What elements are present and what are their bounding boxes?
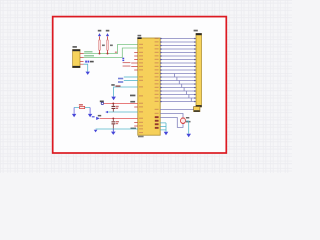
net label (green) pin2 [84, 55, 94, 56]
ground flag left of row 129 [94, 130, 98, 133]
net flag pin3 [85, 61, 94, 63]
teal wire row 129 [96, 128, 138, 130]
U1 left pin stubs [134, 53, 138, 127]
teal wire AREF to ground [114, 87, 138, 97]
push button SW1 [74, 104, 90, 109]
connector J2 [194, 30, 202, 107]
resistor R2 [107, 40, 113, 54]
bus end dots [160, 38, 195, 103]
U1 GND pin name blocks [155, 116, 159, 129]
pin label speck [130, 95, 135, 97]
ground flag Y1 [186, 134, 191, 137]
wire RESET (red) [104, 102, 138, 104]
junction RESET [112, 102, 114, 104]
power flag VCC2 [106, 30, 110, 40]
net flag near W2 [122, 58, 124, 61]
arrow flag row B [92, 115, 101, 120]
crystal Y1 [180, 117, 190, 124]
power flag VCC1 [98, 30, 102, 40]
connector J1 [72, 46, 83, 68]
net label row1 [118, 78, 123, 80]
wire J1 pin4 to ground [84, 64, 88, 71]
arrow flag left of row 112 [105, 111, 108, 113]
component X1 (yellow) [194, 107, 200, 112]
pin label XTAL (black) [130, 101, 135, 103]
ground flag below J1 [86, 72, 90, 75]
U1 bottom label [138, 136, 144, 138]
ground flag SW1 left [72, 114, 76, 117]
junction W1 tick [115, 52, 117, 53]
ground flag bracket [164, 132, 169, 135]
wire U1 XTAL1 to Y1 [160, 114, 183, 118]
teal wire PC row1 [124, 76, 138, 78]
teal wire PC row2 [124, 80, 138, 82]
net label (green) pin1 [84, 51, 92, 52]
U1 left pin stubs with red net labels [123, 62, 138, 67]
wire W1 (green) [84, 45, 138, 54]
capacitor C1 [112, 103, 119, 112]
ground flag below C2 [111, 129, 116, 135]
teal wire row 112 [108, 111, 138, 113]
wire SW1 right leg [89, 108, 91, 114]
capacitor C2 [112, 118, 119, 129]
pin label GND (black) [131, 128, 137, 129]
junction row B [112, 117, 114, 119]
ground flag SW1 right [88, 114, 92, 117]
wire U1 XTAL2 to Y1 [160, 118, 183, 128]
resistor R1 [99, 40, 105, 54]
wire W2 (green) [84, 48, 138, 58]
IC U1 [137, 35, 160, 135]
U1 left inner pin names [139, 44, 143, 133]
wire Y1 case to ground [186, 121, 189, 134]
U1 GND pins bracket [160, 123, 166, 132]
bus crossover jogs [175, 74, 192, 102]
net label row2 [118, 81, 123, 83]
U1 right inner pin names [155, 38, 159, 118]
wire row B (red) [100, 117, 138, 119]
wire U1 pin to X1 [160, 109, 193, 111]
junction R2/W1 [107, 53, 109, 55]
label on AREF wire [116, 85, 121, 86]
data bus wires U1 to J2 [160, 39, 196, 102]
label above AREF wire [111, 84, 114, 86]
wire SW1 left leg [73, 108, 75, 114]
sheet area [53, 17, 227, 153]
node RESET circle flag [100, 101, 104, 105]
ground flag AREF [111, 97, 116, 101]
junction R1/W1 [99, 53, 101, 55]
